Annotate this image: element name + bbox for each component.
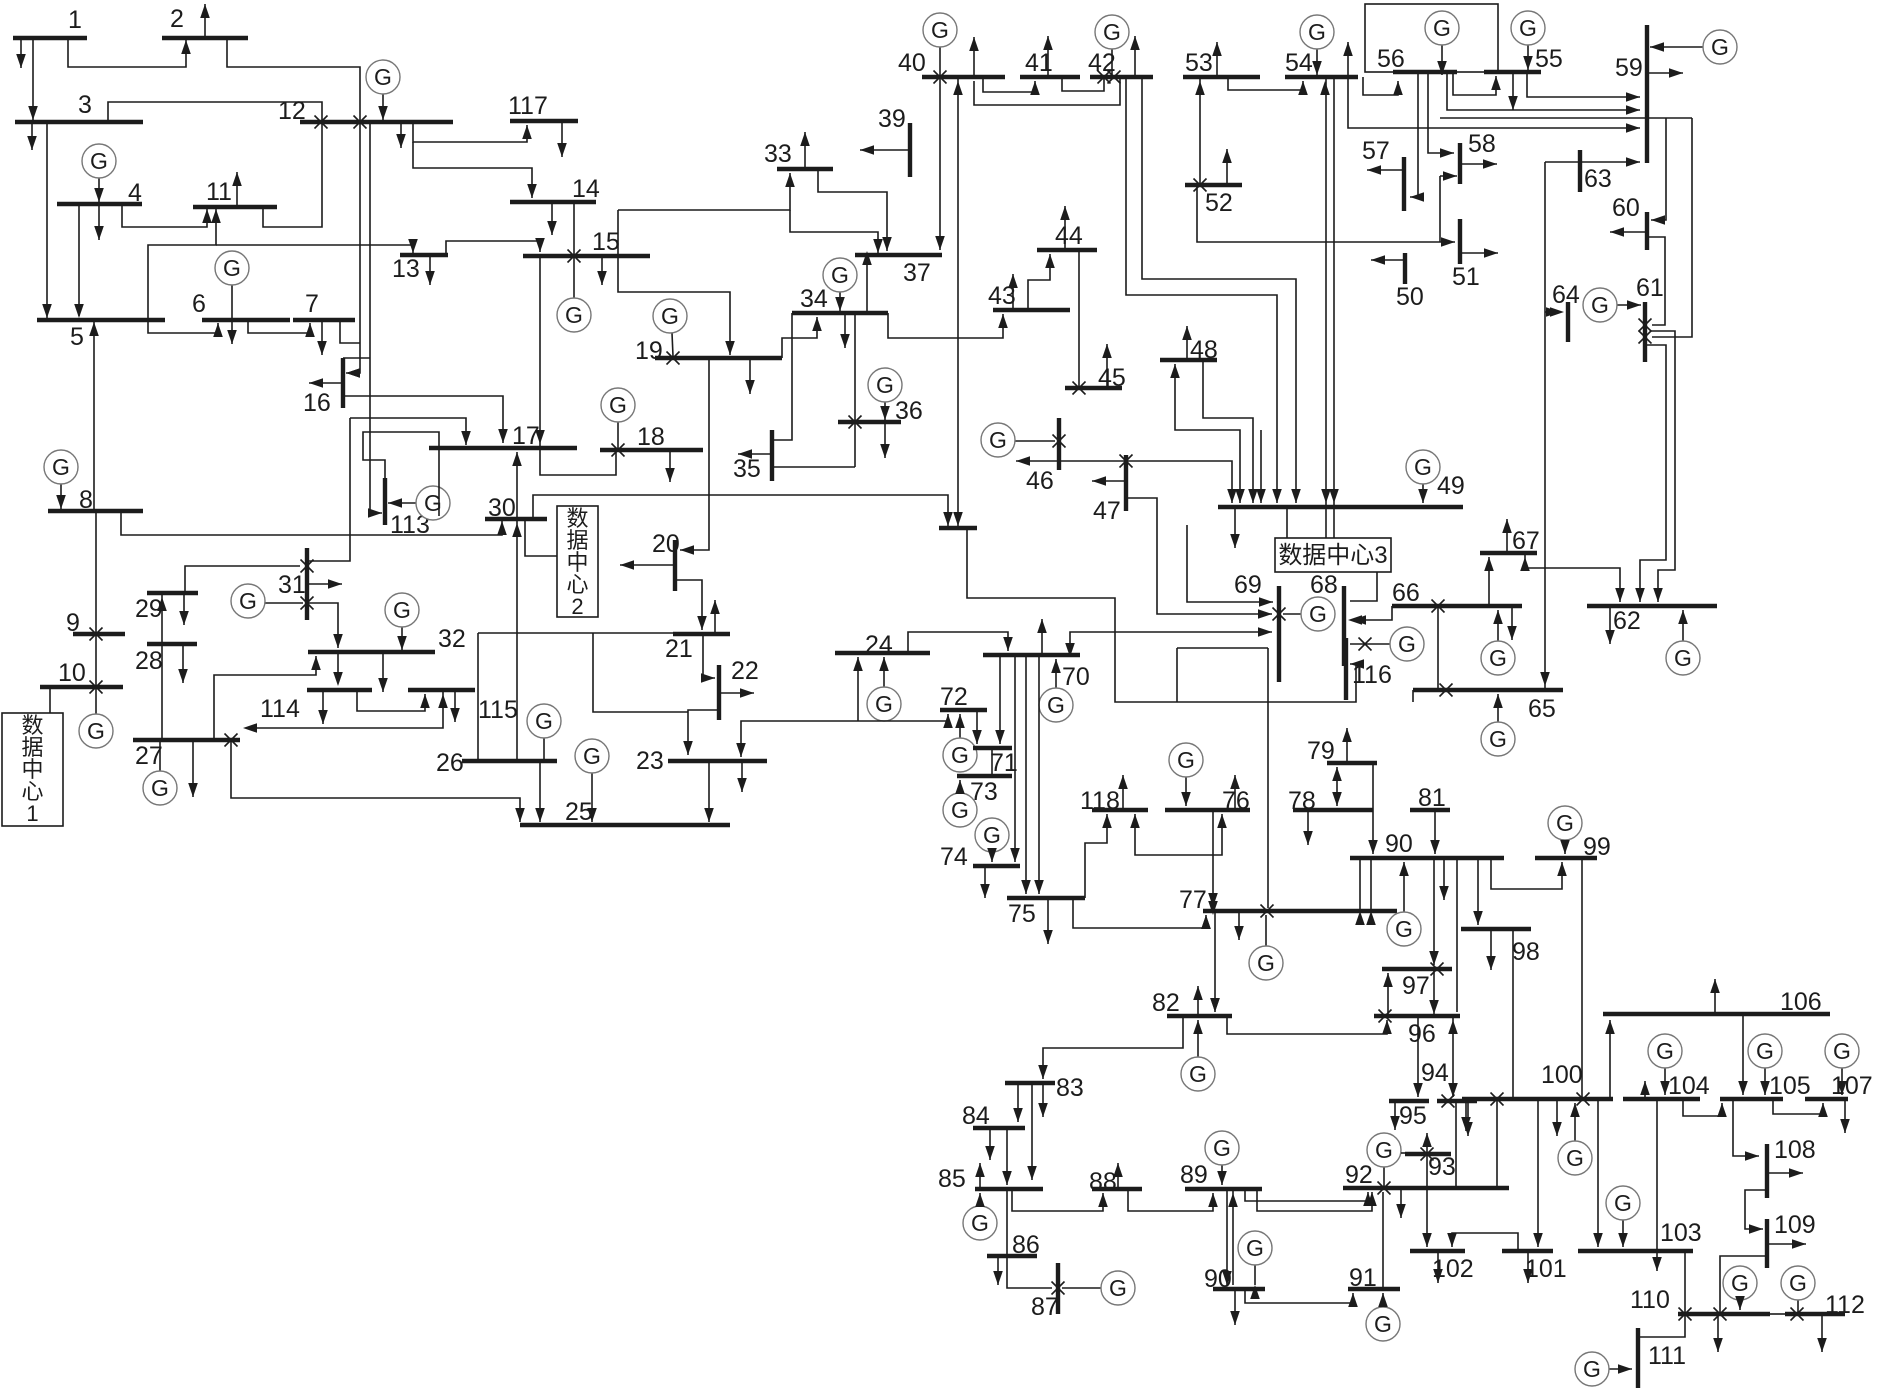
svg-text:110: 110 bbox=[1630, 1286, 1670, 1314]
svg-text:103: 103 bbox=[1660, 1219, 1702, 1247]
load arrow at bus 85 bbox=[979, 1163, 981, 1189]
svg-text:45: 45 bbox=[1098, 364, 1126, 392]
svg-text:61: 61 bbox=[1636, 274, 1664, 302]
generator G bus 90b bbox=[1254, 1265, 1256, 1285]
wire 90-91 bbox=[1245, 1289, 1353, 1303]
wire 78-79 bbox=[1336, 767, 1338, 806]
wire 6-7 bbox=[248, 320, 310, 333]
svg-text:G: G bbox=[876, 372, 894, 398]
svg-text:G: G bbox=[1246, 1235, 1264, 1261]
svg-text:G: G bbox=[1566, 1145, 1584, 1171]
wire 79-90 bbox=[1372, 763, 1374, 854]
wire 48-49 a bbox=[1175, 364, 1240, 503]
load arrow at bus 104 bbox=[1644, 1081, 1646, 1099]
svg-text:18: 18 bbox=[637, 423, 665, 451]
load arrow at bus 74 bbox=[984, 866, 986, 898]
arrowhead into bus 11 from 6 bbox=[211, 209, 221, 223]
svg-text:116: 116 bbox=[1352, 661, 1392, 689]
wire G-93 bbox=[1401, 1152, 1407, 1154]
wire 3-12 bbox=[108, 102, 322, 122]
crossing mark on bus 92 bbox=[1378, 1182, 1391, 1195]
arrowhead into bus 73 from G bbox=[955, 780, 965, 794]
svg-text:G: G bbox=[951, 742, 969, 768]
svg-text:G: G bbox=[1789, 1270, 1807, 1296]
svg-text:104: 104 bbox=[1668, 1072, 1710, 1100]
bus 114 bbox=[307, 688, 372, 692]
svg-text:7: 7 bbox=[305, 290, 319, 318]
crossing mark on bus 65 bbox=[1440, 684, 1453, 697]
wire 40-41 bbox=[983, 77, 1035, 92]
bus 8 bbox=[48, 509, 143, 513]
svg-text:72: 72 bbox=[940, 683, 968, 711]
bus 31 bbox=[305, 548, 309, 620]
svg-text:52: 52 bbox=[1205, 189, 1233, 217]
generator G bus 19 bbox=[672, 333, 673, 356]
load arrow at bus 39 bbox=[860, 149, 910, 151]
load arrow at bus 60 bbox=[1610, 231, 1647, 233]
arrowhead into bus 24 from below bbox=[853, 657, 863, 671]
bus 34 bbox=[792, 311, 888, 315]
box data center 2 bbox=[557, 506, 598, 617]
wire 40-37 bbox=[939, 79, 941, 250]
bus 50 bbox=[1403, 253, 1407, 284]
load arrow at bus 15 bbox=[601, 256, 603, 285]
arrowhead into bus 49 in2 bbox=[1256, 489, 1266, 503]
svg-text:48: 48 bbox=[1190, 336, 1218, 364]
crossing mark on bus 42 b bbox=[1108, 71, 1121, 84]
svg-text:65: 65 bbox=[1528, 695, 1556, 723]
generator G bus 103 bbox=[1622, 1220, 1624, 1247]
bus 108 bbox=[1765, 1144, 1769, 1198]
load arrow at bus 90 bbox=[1443, 858, 1445, 900]
arrowhead into bus 53 from 52 bbox=[1195, 81, 1205, 95]
generator G bus 74 left bbox=[991, 852, 993, 862]
generator G bus 34 bbox=[839, 292, 841, 311]
crossing mark on bus 110 b bbox=[1714, 1308, 1727, 1321]
wire 96-94 bbox=[1452, 1016, 1454, 1097]
svg-text:117: 117 bbox=[508, 92, 548, 120]
load arrow at bus 67 bbox=[1506, 519, 1508, 553]
svg-text:56: 56 bbox=[1377, 45, 1405, 73]
svg-text:G: G bbox=[87, 718, 105, 744]
load arrow at bus 23 bbox=[741, 761, 743, 792]
svg-text:G: G bbox=[223, 255, 241, 281]
arrowhead into bus 68 from right bbox=[1348, 615, 1362, 625]
svg-text:82: 82 bbox=[1152, 989, 1180, 1017]
svg-text:G: G bbox=[1374, 1311, 1392, 1337]
svg-text:77: 77 bbox=[1179, 886, 1207, 914]
svg-text:47: 47 bbox=[1093, 497, 1121, 525]
svg-text:79: 79 bbox=[1307, 737, 1335, 765]
generator G bus 59 bbox=[1650, 46, 1703, 48]
svg-text:111: 111 bbox=[1648, 1342, 1686, 1370]
generator G bus 82 bbox=[1197, 1020, 1199, 1057]
svg-text:G: G bbox=[1395, 916, 1413, 942]
wire 12-16 bbox=[346, 122, 360, 373]
svg-text:46: 46 bbox=[1026, 467, 1054, 495]
wire 61-62 a bbox=[1640, 345, 1666, 602]
wire 63-59 bbox=[1545, 161, 1640, 163]
wire 12-14 bbox=[413, 142, 532, 198]
wire to 23 bbox=[593, 633, 688, 712]
wire 56-55 bbox=[1453, 72, 1496, 95]
wire 44-45 bbox=[1078, 250, 1080, 388]
svg-text:62: 62 bbox=[1613, 607, 1641, 635]
arrowhead into bus 104 from G bbox=[1660, 1081, 1670, 1095]
svg-text:1: 1 bbox=[26, 801, 38, 826]
bus 48 bbox=[1160, 358, 1217, 362]
wire 105-107 bbox=[1773, 1099, 1823, 1114]
bus 92 bbox=[1343, 1186, 1509, 1190]
wire 103-110 bbox=[1684, 1251, 1686, 1314]
generator G bus 42 bbox=[1111, 49, 1113, 75]
generator G bus 105 bbox=[1764, 1068, 1766, 1095]
svg-text:G: G bbox=[1489, 726, 1507, 752]
wire 30-box2 bbox=[525, 519, 557, 556]
arrowhead into bus 89 from G bbox=[1217, 1171, 1227, 1185]
svg-text:G: G bbox=[1398, 631, 1416, 657]
bus 90b bbox=[1213, 1287, 1265, 1291]
bus 56 bbox=[1393, 70, 1457, 74]
wire 70-69 bbox=[1070, 632, 1272, 657]
svg-text:19: 19 bbox=[635, 337, 663, 365]
bus 100 bbox=[1462, 1097, 1613, 1101]
bus 78 bbox=[1293, 808, 1373, 812]
wire 89-92 b bbox=[1257, 1189, 1372, 1211]
arrowhead into bus 49 cross b bbox=[1329, 489, 1339, 503]
svg-text:G: G bbox=[1309, 601, 1327, 627]
bus 55 bbox=[1484, 70, 1541, 74]
bus 71 bbox=[973, 746, 1012, 750]
svg-text:G: G bbox=[1433, 15, 1451, 41]
bus 53 bbox=[1183, 75, 1260, 79]
load arrow at bus 1 bbox=[20, 38, 22, 68]
bus 97 bbox=[1382, 967, 1452, 971]
crossing mark on bus 12 bbox=[315, 116, 328, 129]
wire 23-25 bbox=[708, 761, 710, 822]
load arrow at bus 50 bbox=[1371, 259, 1405, 261]
arrowhead into bus 49 cross a bbox=[1321, 489, 1331, 503]
load arrow at bus 114 bbox=[322, 690, 324, 724]
crossing mark on bus 93 bbox=[1421, 1148, 1434, 1161]
generator G bus 54 bbox=[1316, 49, 1318, 75]
svg-text:60: 60 bbox=[1612, 194, 1640, 222]
bus 22 bbox=[717, 665, 721, 720]
bus 54 bbox=[1285, 75, 1358, 79]
arrowhead into bus 49 from G bbox=[1418, 489, 1428, 503]
wire 55-59 bbox=[1527, 72, 1640, 97]
load arrow at bus 2 bbox=[204, 4, 206, 38]
load arrow at bus 31 bbox=[307, 583, 342, 585]
wire 38-65 bbox=[967, 528, 1356, 702]
arrowhead into bus 59 from G bbox=[1650, 42, 1664, 52]
generator G bus 6 bbox=[231, 285, 233, 318]
load arrow at bus 46 bbox=[1016, 456, 1030, 466]
bus 83 bbox=[1005, 1081, 1055, 1085]
wire 90-97 bbox=[1433, 858, 1435, 965]
box around bus 56 bbox=[1365, 4, 1498, 72]
svg-text:G: G bbox=[1375, 1137, 1393, 1163]
svg-text:13: 13 bbox=[392, 255, 420, 283]
svg-text:G: G bbox=[951, 797, 969, 823]
bus 69 bbox=[1277, 586, 1281, 682]
load arrow at bus 41 bbox=[1047, 36, 1049, 77]
arrowhead into bus 102 from 93 bbox=[1422, 1233, 1432, 1247]
svg-text:40: 40 bbox=[898, 49, 926, 77]
load arrow at bus 106 bbox=[1714, 979, 1716, 1014]
generator G bus 18 bbox=[617, 422, 619, 448]
bus 10 bbox=[40, 685, 123, 689]
svg-text:109: 109 bbox=[1774, 1211, 1816, 1239]
load arrow at bus 33 bbox=[804, 132, 806, 169]
svg-text:112: 112 bbox=[1825, 1291, 1865, 1319]
svg-text:86: 86 bbox=[1012, 1231, 1040, 1259]
wire 56-57 bbox=[1410, 72, 1418, 197]
arrowhead into bus 25 from G bbox=[587, 808, 597, 822]
load arrow at bus 76 bbox=[1234, 775, 1236, 810]
svg-text:44: 44 bbox=[1055, 222, 1083, 250]
bus 23 bbox=[668, 759, 767, 763]
svg-text:G: G bbox=[1489, 645, 1507, 671]
generator G bus 61 bbox=[1617, 304, 1641, 306]
crossing mark on bus 15 b bbox=[568, 250, 581, 263]
arrowhead into bus 5 from 8 bbox=[89, 322, 99, 336]
svg-text:36: 36 bbox=[895, 397, 923, 425]
bus 27 bbox=[133, 738, 240, 742]
generator G bus 70 bbox=[1055, 659, 1057, 688]
wire 20-21 bbox=[675, 580, 702, 630]
bus 96 bbox=[1374, 1014, 1460, 1018]
crossing mark on bus 31 bbox=[301, 560, 314, 573]
arrowhead into bus 107 from G bbox=[1837, 1081, 1847, 1095]
arrowhead into bus 54 from below bbox=[1320, 81, 1330, 95]
bus 115 bbox=[408, 688, 475, 692]
arrowhead into bus 96 from 94 bbox=[1448, 1020, 1458, 1034]
wire 90-96 bbox=[1456, 858, 1458, 1012]
arrowhead into bus 115 from 27 bbox=[438, 694, 448, 708]
crossing mark on bus 47 bbox=[1120, 455, 1133, 468]
wire 48-49 b bbox=[1203, 360, 1253, 503]
wire 59-61 right bbox=[1652, 118, 1692, 337]
wire 66-68 bbox=[1352, 606, 1392, 620]
load arrow at bus 52 bbox=[1226, 149, 1228, 185]
wire 70-75 a bbox=[1025, 655, 1027, 894]
svg-text:G: G bbox=[393, 597, 411, 623]
generator G bus 104 bbox=[1664, 1068, 1666, 1095]
wire 109-110 bbox=[1720, 1256, 1767, 1314]
wire through 59 bbox=[1440, 117, 1692, 119]
arrowhead into bus 77 from 75 bbox=[1201, 915, 1211, 929]
bus 117 bbox=[510, 119, 578, 123]
load arrow at bus 51 bbox=[1460, 252, 1498, 254]
svg-text:G: G bbox=[583, 743, 601, 769]
wire 4-11 bbox=[122, 204, 207, 227]
load arrow at bus 14 bbox=[551, 202, 553, 235]
svg-text:2: 2 bbox=[170, 5, 184, 33]
load arrow at bus 55 bbox=[1512, 72, 1514, 110]
wire 15-17 bbox=[539, 256, 541, 446]
svg-text:71: 71 bbox=[990, 749, 1018, 777]
svg-text:G: G bbox=[535, 708, 553, 734]
generator G bus 24 bbox=[883, 657, 885, 687]
wire 94-92 bbox=[1455, 1101, 1457, 1188]
svg-text:G: G bbox=[1656, 1038, 1674, 1064]
svg-text:31: 31 bbox=[278, 571, 306, 599]
wire 49-box3 bbox=[1286, 509, 1288, 538]
bus 61 bbox=[1643, 302, 1647, 362]
wire 11-13 bbox=[216, 245, 413, 253]
svg-text:G: G bbox=[52, 454, 70, 480]
arrowhead into bus 56 from G bbox=[1437, 61, 1447, 75]
svg-text:G: G bbox=[661, 303, 679, 329]
wire 70-74 bbox=[1014, 655, 1016, 862]
wire 52-53 bbox=[1199, 77, 1201, 183]
wire 110-112 bbox=[1770, 1313, 1785, 1315]
wire 75-77 bbox=[1073, 898, 1206, 928]
svg-text:24: 24 bbox=[865, 631, 893, 659]
bus 63 bbox=[1578, 150, 1582, 192]
svg-text:114: 114 bbox=[260, 695, 300, 723]
wire 111-110 bbox=[1638, 1314, 1685, 1337]
wire 35-36 bbox=[772, 466, 855, 468]
arrowhead into bus 29 from below bbox=[157, 597, 167, 611]
wire 99-100 bbox=[1581, 858, 1583, 1099]
svg-text:G: G bbox=[1614, 1190, 1632, 1216]
svg-text:54: 54 bbox=[1285, 49, 1313, 77]
load arrow at bus 78 bbox=[1307, 810, 1309, 845]
wire 17-30-26 bbox=[516, 452, 518, 761]
crossing mark on bus 110 bbox=[1679, 1308, 1692, 1321]
wire 69-75 v bbox=[1176, 648, 1178, 702]
load arrow at bus 115 bbox=[454, 690, 456, 722]
bus 4 bbox=[57, 202, 142, 206]
bus 103 bbox=[1578, 1249, 1693, 1253]
svg-text:59: 59 bbox=[1615, 54, 1643, 82]
load arrow at bus 12 bbox=[400, 122, 402, 148]
generator G bus 66 bbox=[1497, 610, 1499, 641]
crossing mark on bus 97 bbox=[1431, 963, 1444, 976]
wire 15-33 bbox=[618, 173, 790, 210]
generator G bus 56 bbox=[1441, 45, 1443, 75]
arrowhead into bus 65 from G bbox=[1493, 694, 1503, 708]
bus 68 bbox=[1342, 586, 1346, 666]
svg-text:84: 84 bbox=[962, 1102, 990, 1130]
box data center 1 bbox=[2, 713, 63, 826]
bus 99 bbox=[1535, 856, 1597, 860]
bus 45 bbox=[1065, 386, 1122, 390]
load arrow at bus 6 bbox=[231, 320, 233, 344]
wire 40-37-38 bbox=[957, 77, 959, 526]
wire 54-dc3 b bbox=[1333, 77, 1335, 538]
wire 15-19 bbox=[618, 210, 730, 355]
svg-text:G: G bbox=[1109, 1275, 1127, 1301]
load arrow at bus 109 bbox=[1767, 1243, 1806, 1245]
crossing mark on bus 77 bbox=[1261, 905, 1274, 918]
wire 5-8 bbox=[93, 322, 95, 509]
wire 92-100 bbox=[1496, 1101, 1498, 1188]
bus 81 bbox=[1410, 808, 1450, 812]
bus 3 bbox=[15, 120, 143, 124]
load arrow at bus 66 bbox=[1511, 606, 1513, 640]
svg-text:93: 93 bbox=[1428, 1153, 1456, 1181]
bus 64 bbox=[1566, 302, 1570, 342]
bus 93 bbox=[1405, 1152, 1451, 1156]
load arrow at bus 59 bbox=[1647, 72, 1683, 74]
wire 85-88 bbox=[1012, 1189, 1103, 1211]
svg-text:70: 70 bbox=[1062, 663, 1090, 691]
load arrow at bus 34 bbox=[844, 313, 846, 348]
wire 34-35 bbox=[774, 313, 792, 440]
arrowhead into bus 38 from 40 bbox=[953, 512, 963, 526]
load arrow at bus 18 bbox=[669, 450, 671, 482]
wire 12-117 bbox=[413, 122, 527, 142]
svg-text:75: 75 bbox=[1008, 900, 1036, 928]
svg-text:5: 5 bbox=[70, 323, 84, 351]
generator G bus 100 bbox=[1574, 1103, 1576, 1141]
wire 43-44 bbox=[1028, 254, 1050, 310]
bus 109 bbox=[1765, 1219, 1769, 1268]
svg-text:76: 76 bbox=[1222, 787, 1250, 815]
generator G bus 116 bbox=[1350, 643, 1390, 645]
load arrow at bus 62 bbox=[1609, 606, 1611, 644]
arrowhead into bus 23 from 24 bbox=[736, 743, 746, 757]
wire 12-113 bbox=[370, 122, 382, 513]
load arrow at bus 70 bbox=[1041, 619, 1043, 655]
wire 17-30-113 bbox=[363, 432, 439, 516]
bus 40 bbox=[922, 75, 1005, 79]
svg-text:G: G bbox=[151, 775, 169, 801]
wire 100-103 bbox=[1597, 1099, 1599, 1247]
bus 107 bbox=[1805, 1097, 1848, 1101]
wire 1-3 bbox=[32, 38, 34, 120]
crossing mark on bus 61 bbox=[1639, 319, 1652, 332]
load arrow at bus 47 bbox=[1092, 480, 1126, 482]
arrowhead into bus 103 from G bbox=[1618, 1233, 1628, 1247]
bus 2 bbox=[162, 36, 248, 40]
crossing mark on bus 94 bbox=[1442, 1095, 1455, 1108]
generator G bus 4 bbox=[98, 178, 100, 202]
load arrow at bus 32 bbox=[382, 652, 384, 692]
crossing mark on bus 100 b bbox=[1577, 1093, 1590, 1106]
generator G bus 85 bbox=[979, 1193, 981, 1206]
generator G bus 76 bbox=[1185, 777, 1187, 806]
wire 42-49 b bbox=[1126, 77, 1277, 503]
crossing mark on bus 61 b bbox=[1639, 331, 1652, 344]
load arrow at bus 112 bbox=[1821, 1314, 1823, 1352]
bus 95 bbox=[1389, 1099, 1429, 1103]
svg-text:3: 3 bbox=[78, 91, 92, 119]
wire box3-68 bbox=[1350, 572, 1377, 601]
bus 106 bbox=[1603, 1012, 1830, 1016]
wire 52-51 bbox=[1197, 185, 1455, 242]
bus 90 bbox=[1350, 856, 1504, 860]
arrowhead into bus 60 from 59 bbox=[1651, 215, 1665, 225]
load arrow at bus 11 bbox=[236, 172, 238, 207]
wire 108-109 bbox=[1745, 1190, 1767, 1229]
svg-text:G: G bbox=[1519, 15, 1537, 41]
svg-text:91: 91 bbox=[1349, 1264, 1377, 1292]
wire 34-37 bbox=[866, 255, 868, 313]
bus 65 bbox=[1413, 688, 1563, 692]
load arrow at bus 118 bbox=[1122, 775, 1124, 810]
arrowhead into bus 90b from G bbox=[1250, 1285, 1260, 1299]
svg-text:数据中心3: 数据中心3 bbox=[1278, 542, 1387, 569]
crossing mark on bus 87 bbox=[1052, 1282, 1065, 1295]
wire 58 stub bbox=[1440, 175, 1457, 177]
arrowhead into bus 32 from 27 bbox=[311, 656, 321, 670]
svg-text:89: 89 bbox=[1180, 1161, 1208, 1189]
bus 26 bbox=[462, 759, 557, 763]
